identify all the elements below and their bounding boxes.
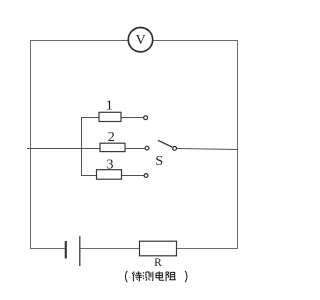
resistor 3 body: [97, 170, 122, 180]
wire: vertical branch bus: [81, 117, 83, 176]
switch S blade: [158, 140, 172, 147]
switch S pivot circle: [173, 147, 177, 151]
contact node 1 (open terminal circle): [144, 116, 148, 120]
wire: right side vertical: [237, 40, 239, 249]
svg-text:2: 2: [108, 130, 115, 145]
wire: top-left segment: [31, 40, 128, 42]
svg-text:3: 3: [107, 157, 114, 172]
wire: middle feed from left frame to branch bus: [27, 148, 100, 150]
svg-text:S: S: [155, 154, 163, 169]
wire: bottom-left to battery: [30, 248, 65, 250]
resistor 1 body: [99, 112, 121, 121]
contact node 2 (open terminal circle): [145, 146, 149, 150]
caption hanzi: dai (待): [132, 271, 142, 281]
wire: bus to resistor 3: [81, 175, 97, 177]
caption hanzi: zu (阻): [166, 272, 176, 282]
wire: top-right segment: [153, 40, 238, 42]
wire: left side vertical: [30, 40, 32, 249]
resistor R body (unknown resistance): [140, 241, 177, 256]
voltmeter U1 circle: [128, 28, 152, 52]
caption hanzi: ce (测): [143, 272, 153, 281]
wire: resistor 3 to contact 3: [122, 175, 145, 177]
svg-text:V: V: [136, 33, 146, 48]
caption: right full-width parenthesis: [185, 271, 187, 282]
wire: resistor 2 to contact 2: [125, 148, 145, 150]
contact node 3 (open terminal circle): [144, 174, 148, 178]
wire: bus to resistor 1: [81, 117, 99, 119]
battery B1 positive plate (long thin): [79, 236, 81, 266]
caption: left full-width parenthesis: [125, 271, 127, 282]
wire: battery to resistor R: [81, 248, 140, 250]
resistor 2 body: [100, 143, 125, 151]
wire: resistor R to bottom-right corner: [177, 248, 239, 250]
caption hanzi: dian (电): [156, 271, 164, 280]
svg-text:1: 1: [106, 98, 113, 113]
battery B1 negative plate (short thick): [65, 241, 67, 259]
wire: resistor 1 to contact 1: [121, 117, 144, 119]
svg-text:R: R: [154, 257, 162, 269]
wire: switch pivot to right frame: [177, 149, 238, 150]
